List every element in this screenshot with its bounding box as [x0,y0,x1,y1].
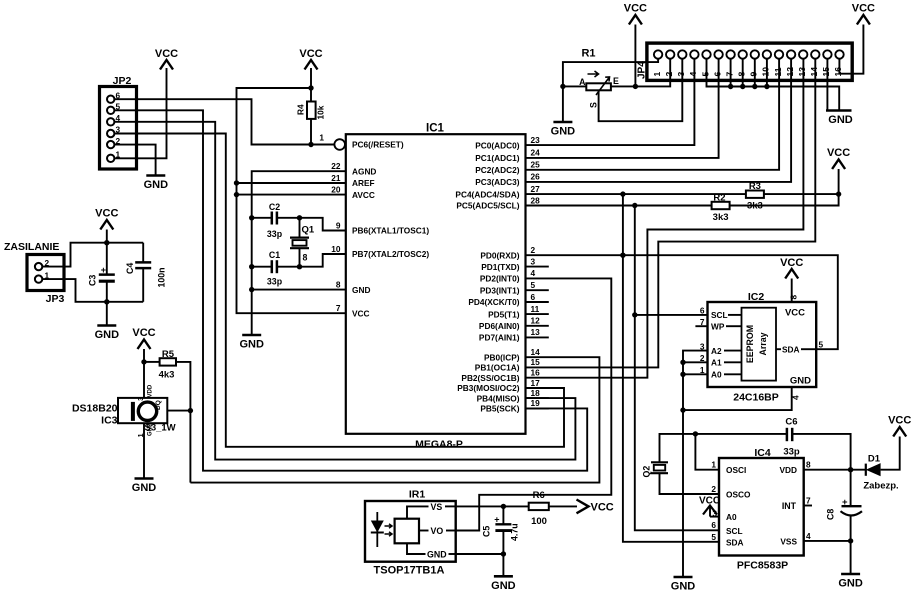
wire VCC node to AREF AVCC and IC1 VCC pin [237,88,346,313]
svg-text:R4: R4 [296,104,306,115]
wire JP4 pin 12 to PC3 [526,59,792,182]
svg-text:GND: GND [671,581,696,593]
junction A0 on rail [680,372,685,377]
svg-text:4: 4 [806,531,811,541]
junction VSS node [848,538,853,543]
svg-text:5: 5 [819,340,824,350]
svg-text:SCL: SCL [711,310,728,320]
wire AREF row [237,182,346,184]
svg-text:SCL: SCL [726,526,743,536]
svg-text:PD5(T1): PD5(T1) [488,309,520,319]
svg-text:18: 18 [531,388,541,398]
svg-text:GND: GND [239,339,264,351]
svg-text:A2: A2 [711,346,722,356]
svg-text:16: 16 [531,368,541,378]
wire IC4 VSS row [804,541,851,574]
svg-text:AGND: AGND [352,166,376,176]
power VCC arrow right at R6 [577,500,614,514]
wire R3 to VCC node [764,193,839,195]
svg-text:AREF: AREF [352,178,375,188]
wire IC2 A2 to ground rail [683,351,708,577]
svg-text:GND: GND [828,114,853,126]
svg-text:PD1(TXD): PD1(TXD) [481,262,519,272]
ground below JP2 [146,174,165,177]
svg-text:33p: 33p [783,447,800,458]
wire IC2 WP stub [695,325,707,327]
ground below DS18B20 [135,477,154,480]
svg-text:R1: R1 [581,48,595,60]
power VCC at IC4 A0 [699,496,720,517]
svg-text:PC3(ADC3): PC3(ADC3) [475,177,519,187]
wire JP4 pin 16 to VCC [839,25,863,74]
wire IC1 GND pin 8 row [252,289,346,291]
junction R5 tap on VCC line [141,359,146,364]
svg-text:PD0(RXD): PD0(RXD) [480,250,519,260]
svg-text:22: 22 [331,161,341,171]
wire C1 to XTAL2 node [277,254,346,267]
diode D1 Zabezp. [863,454,898,492]
svg-text:R3: R3 [749,181,761,192]
svg-text:PB1(OC1A): PB1(OC1A) [475,363,520,373]
wire VCC shaft to pullup node [838,169,840,194]
wire AVCC row [237,194,346,196]
svg-text:R6: R6 [533,490,545,501]
svg-text:Q1: Q1 [302,225,315,236]
wire AGND row to ground rail [252,171,346,335]
junction ground rail at C1 row [249,264,254,269]
svg-text:AVCC: AVCC [352,190,375,200]
svg-text:GND: GND [838,578,863,590]
svg-text:11: 11 [531,304,540,314]
ground below IC4 rail [674,576,693,579]
svg-text:24C16BP: 24C16BP [733,392,779,404]
wire JP4 pins 5 7 8 9 10 ground tie [707,59,840,111]
capacitor C3 electrolytic [88,265,115,326]
svg-text:21: 21 [331,173,341,183]
wire R6 to VCC arrow [549,505,577,507]
svg-text:+: + [494,515,499,525]
IC1 pin 1 inversion bubble [334,139,345,150]
IC1 left pin labels and numbers [331,140,429,319]
svg-text:7: 7 [336,303,341,313]
wire SCL branch to IC2 SCL [635,314,708,316]
svg-text:A0: A0 [711,370,722,380]
svg-text:GND: GND [551,126,576,138]
IR1 VS pin [407,506,429,518]
wire JP2 pin 3 to PB3(MOSI) bus [114,134,564,447]
wire Q2 top to oscillator line [660,434,787,462]
svg-text:E: E [613,76,619,86]
wire JP4 pin 15 to ground [826,59,828,111]
svg-text:6: 6 [712,72,722,77]
svg-text:11: 11 [773,67,783,76]
svg-text:1: 1 [711,460,716,470]
wire JP4 pin 7 stub to tie [730,59,732,87]
svg-text:R2: R2 [713,193,725,204]
svg-text:IC2: IC2 [748,291,765,303]
svg-text:4.7u: 4.7u [510,523,520,541]
svg-text:28: 28 [531,195,541,205]
svg-text:C8: C8 [826,509,836,520]
svg-text:PC4(ADC4/SDA): PC4(ADC4/SDA) [455,189,519,199]
wire IC2 GND pin 4 to rail [683,387,792,410]
svg-text:GND: GND [790,376,811,387]
svg-text:PC5(ADC5/SCL): PC5(ADC5/SCL) [456,201,519,211]
svg-text:IC1: IC1 [426,123,445,135]
photodiode inside IR1 [376,512,378,547]
op-amp style IC1 MEGA8-P body [346,123,526,451]
wire JP3 pin 1 to ground rail [42,279,143,302]
svg-text:PD3(INT1): PD3(INT1) [480,285,520,295]
svg-text:MEGA8-P: MEGA8-P [415,439,463,451]
svg-text:+: + [842,497,848,508]
svg-text:PB5(SCK): PB5(SCK) [480,404,519,414]
wire VCC to IC2 pin 8 [791,279,793,303]
wire R5 right to 1-wire vertical [176,362,190,483]
svg-text:IR1: IR1 [409,489,426,501]
svg-text:14: 14 [809,67,819,77]
wire Q2 bottom to IC4 OSCO [660,473,720,494]
wire JP4 pin 6 to PC1 [526,59,719,158]
svg-text:INT: INT [782,501,797,511]
svg-text:5: 5 [700,72,710,77]
wire R5 left [144,361,160,363]
svg-text:OSCO: OSCO [726,490,751,500]
svg-text:C5: C5 [482,526,492,537]
resistor R4 vertical [296,102,326,120]
svg-text:PC1(ADC1): PC1(ADC1) [475,153,519,163]
junction pullup VCC node [836,191,841,196]
junction tie at pin 10 [764,84,769,89]
junction SCL branch tap [632,312,637,317]
junction ground rail at C2 row [249,215,254,220]
svg-text:VCC: VCC [591,501,614,513]
wire IC2 A0 stub [683,373,708,375]
svg-text:C6: C6 [785,417,797,428]
svg-text:VCC: VCC [352,308,370,318]
wire JP2 pin 6 to R4 bottom / IC1 PC6 reset net [114,99,311,144]
svg-text:1: 1 [652,72,662,77]
svg-text:Zabezp.: Zabezp. [863,481,898,492]
svg-text:3k3: 3k3 [713,212,729,223]
wire DS18B20 DQ to 1-wire vertical [167,410,190,412]
IR1 VO pin [419,530,429,532]
wire R1 A terminal to ground and JP4 pin 1 [563,86,586,122]
svg-text:IC3: IC3 [101,415,118,427]
junction SDA row tap [620,253,625,258]
svg-text:S3_1W: S3_1W [145,423,176,434]
svg-text:GND: GND [144,179,169,191]
junction R1 A node [560,84,565,89]
wire C1 row from ground rail [252,266,272,268]
svg-text:Q2: Q2 [642,466,652,478]
svg-text:Array: Array [758,332,768,355]
wire JP3 pin 2 to VCC rail [42,243,143,267]
svg-text:PB2(SS/OC1B): PB2(SS/OC1B) [461,373,519,383]
svg-text:C4: C4 [125,263,135,274]
wire VCC shaft to R1 E node [634,25,636,87]
junction SCL column top [632,203,637,208]
svg-text:JP4: JP4 [637,61,648,79]
wire PD0 RXD SDA row to IC2 SDA [526,255,838,349]
svg-text:15: 15 [531,357,541,367]
svg-text:12: 12 [785,67,795,77]
junction R4 top VCC node [308,85,313,90]
junction tie at pin 8 [740,84,745,89]
svg-text:IC4: IC4 [754,447,771,459]
connector JP3 power input ZASILANIE [4,241,64,305]
svg-text:EEPROM: EEPROM [745,325,755,363]
svg-text:100n: 100n [157,267,167,287]
svg-text:17: 17 [531,378,541,388]
wire JP4 pin 14 to PB1 route [526,59,816,368]
svg-text:PB3(MOSI/OC2): PB3(MOSI/OC2) [457,383,519,393]
svg-text:VSS: VSS [780,536,797,546]
svg-text:15: 15 [821,67,831,77]
junction C5 bottom [501,551,506,556]
ground below C1 C2 rail [242,334,261,337]
svg-text:14: 14 [531,347,541,357]
svg-text:A1: A1 [711,358,722,368]
junction R4 bottom reset node [308,142,313,147]
svg-text:6: 6 [700,306,705,316]
svg-text:DS18B20: DS18B20 [72,403,118,415]
svg-text:2: 2 [531,245,536,255]
svg-text:12: 12 [531,316,541,326]
temperature sensor IC3 DS18B20 [72,384,176,437]
junction VCC rail at C3 [104,240,109,245]
wire DS18B20 GND pin [143,423,145,478]
svg-text:VCC: VCC [852,3,875,15]
svg-text:13: 13 [797,67,807,77]
svg-text:VO: VO [431,526,444,536]
svg-text:R5: R5 [162,349,175,360]
svg-text:PC0(ADC0): PC0(ADC0) [475,140,519,150]
svg-text:4k3: 4k3 [159,370,175,381]
capacitor C1 33p [267,250,283,287]
svg-text:24: 24 [531,148,541,158]
svg-text:8: 8 [336,279,341,289]
wire VCC to R4 top [310,68,312,102]
svg-text:25: 25 [531,160,541,170]
wire R2 to VCC node jog [730,194,839,205]
wire PB0 ICP to 1-wire bus [190,357,599,482]
svg-text:JP3: JP3 [46,293,65,305]
svg-text:100: 100 [531,516,547,527]
svg-text:PB7(XTAL2/TOSC2): PB7(XTAL2/TOSC2) [352,249,429,259]
wire JP2 pin 4 to PB4(MISO) bus [114,122,575,460]
svg-text:VCC: VCC [624,3,647,15]
svg-text:JP2: JP2 [113,75,132,87]
svg-text:33p: 33p [267,277,283,287]
junction crystal bottom node [297,264,302,269]
wire D1 to VCC [881,437,900,470]
wire JP4 pin 4 to PC0 [526,59,695,145]
capacitor C5 4.7u electrolytic [482,506,520,554]
junction AREF tap [234,180,239,185]
resistor R2 3k3 [712,193,730,224]
svg-text:VS: VS [431,502,443,512]
wire C6 to VDD node [792,434,850,470]
svg-text:C3: C3 [88,275,98,286]
junction AVCC tap [234,192,239,197]
svg-text:16: 16 [833,67,843,77]
svg-text:WP: WP [711,321,725,331]
svg-text:3: 3 [676,72,686,77]
wire R1 wiper S to JP4 pin 3 [599,59,683,121]
capacitor C6 33p [783,417,800,458]
junction VDD node [848,467,853,472]
wire JP4 pin 9 stub to tie [754,59,756,87]
svg-text:VCC: VCC [888,415,911,427]
IR receiver IR1 body [365,489,456,577]
capacitor C4 100n [125,243,167,302]
svg-text:PB6(XTAL1/TOSC1): PB6(XTAL1/TOSC1) [352,226,429,236]
svg-text:VDD: VDD [148,384,154,397]
junction oscillator line OSCI tap [693,431,698,436]
svg-text:OSCI: OSCI [726,465,746,475]
wire JP4 pin 8 stub to tie [742,59,744,87]
wire IC4 INT stub [804,505,812,507]
wire JP2 pin 1 to VCC [114,68,166,158]
svg-text:PD2(INT0): PD2(INT0) [480,274,520,284]
junction SDA column top [620,191,625,196]
ground below R1 [553,121,572,124]
wire JP4 pin 13 to PB2 route [526,59,804,378]
wire OSCI tap [695,434,719,470]
wire VCC shaft to rail [106,230,108,275]
wire R1 E terminal to VCC and JP4 pin 2 [611,59,670,87]
svg-text:7: 7 [806,495,811,505]
svg-text:10: 10 [761,67,771,77]
svg-text:PC6(/RESET): PC6(/RESET) [352,140,404,150]
wire IC2 A1 stub [683,361,708,363]
wire SCL vertical column [635,206,719,531]
svg-text:4: 4 [531,268,536,278]
junction ground rail at C3 [104,299,109,304]
capacitor C8 electrolytic backup [826,470,863,541]
wire C2 row from ground rail [252,217,272,219]
connector JP4 16-pin LCD header [637,43,853,80]
svg-text:ZASILANIE: ZASILANIE [4,241,59,253]
svg-text:7: 7 [724,72,734,77]
wire JP2 pin 5 to PB5(SCK) bus [114,110,587,470]
svg-text:C1: C1 [269,250,280,260]
svg-text:27: 27 [531,184,541,194]
crystal Q2 [642,462,669,477]
svg-text:VCC: VCC [95,208,118,220]
svg-text:C2: C2 [269,202,280,212]
junction GND rail at pin 8 row [249,287,254,292]
svg-text:SDA: SDA [726,537,744,547]
ground below C8 [841,573,860,576]
capacitor C2 33p [267,202,283,239]
wire VCC shaft into sensor VDD [143,349,145,398]
resistor R6 100 [529,490,549,527]
wire IC4 VDD row [804,469,866,471]
svg-text:GND: GND [95,329,120,341]
wire IR1 ground row [456,554,504,576]
junction R1 E VCC node [633,84,638,89]
svg-text:PB4(MISO): PB4(MISO) [477,393,520,403]
svg-text:33p: 33p [267,229,283,239]
svg-text:PD6(AIN0): PD6(AIN0) [479,321,520,331]
svg-text:+: + [101,265,106,275]
svg-text:VCC: VCC [785,308,805,319]
svg-text:PD7(AIN1): PD7(AIN1) [479,333,520,343]
svg-text:6: 6 [531,292,536,302]
wire C2 to XTAL1 node [277,218,346,231]
wire SDA vertical column [623,194,719,542]
junction A1 on rail [680,360,685,365]
svg-text:4: 4 [688,72,698,77]
junction tie at pin 9 [752,84,757,89]
svg-text:13: 13 [531,327,541,337]
svg-text:DQ: DQ [155,400,162,410]
svg-text:SDA: SDA [782,344,800,354]
svg-text:8: 8 [806,460,811,470]
svg-text:2: 2 [711,484,716,494]
wire PC5 SCL row to R2 [526,205,712,207]
junction DS18B20 DQ on 1-wire [188,408,193,413]
svg-text:8: 8 [789,295,799,300]
svg-text:GND: GND [491,580,516,592]
junction C5 top [501,504,506,509]
svg-text:10k: 10k [316,105,326,119]
svg-text:5: 5 [711,532,716,542]
svg-text:8: 8 [303,253,308,263]
svg-text:1: 1 [319,133,324,143]
svg-text:6: 6 [711,520,716,530]
IC1 right short pin stubs [526,267,549,409]
svg-text:19: 19 [531,398,541,408]
wire R4 bottom to IC1 pin 1 [311,119,334,145]
wire PC4 SDA row to R3 [526,193,746,195]
wire JP2 pin 2 to ground [114,145,155,176]
svg-text:23: 23 [531,135,541,145]
svg-text:26: 26 [531,172,541,182]
IR1 GND pin [407,543,426,554]
svg-text:D1: D1 [868,454,881,465]
svg-text:5: 5 [531,280,536,290]
svg-text:9: 9 [749,72,759,77]
svg-text:PC2(ADC2): PC2(ADC2) [475,165,519,175]
svg-text:PFC8583P: PFC8583P [737,560,788,572]
svg-text:10: 10 [331,244,341,254]
junction rail at IC2 ground [680,407,685,412]
svg-text:9: 9 [336,220,341,230]
svg-text:A0: A0 [726,512,737,522]
svg-text:20: 20 [331,184,341,194]
svg-text:VCC: VCC [132,327,155,339]
op-amp style IC4 PFC8583P body [711,447,811,572]
svg-text:PB0(ICP): PB0(ICP) [484,352,520,362]
svg-text:GND: GND [427,549,447,559]
ground below JP4 [826,109,852,112]
wire JP4 pin 11 to PC2 [526,59,780,170]
svg-text:VDD: VDD [779,465,797,475]
svg-text:2: 2 [664,72,674,77]
svg-text:3: 3 [531,256,536,266]
wire PD2 INT0 to IR receiver output [456,278,612,530]
svg-text:GND: GND [352,285,370,295]
resistor R5 4k3 [159,349,176,381]
junction crystal top node [297,215,302,220]
svg-text:TSOP17TB1A: TSOP17TB1A [374,565,445,577]
svg-text:3: 3 [138,397,145,401]
wire IR1 VS to C5 R6 [456,505,529,507]
potentiometer R1 [579,48,619,109]
